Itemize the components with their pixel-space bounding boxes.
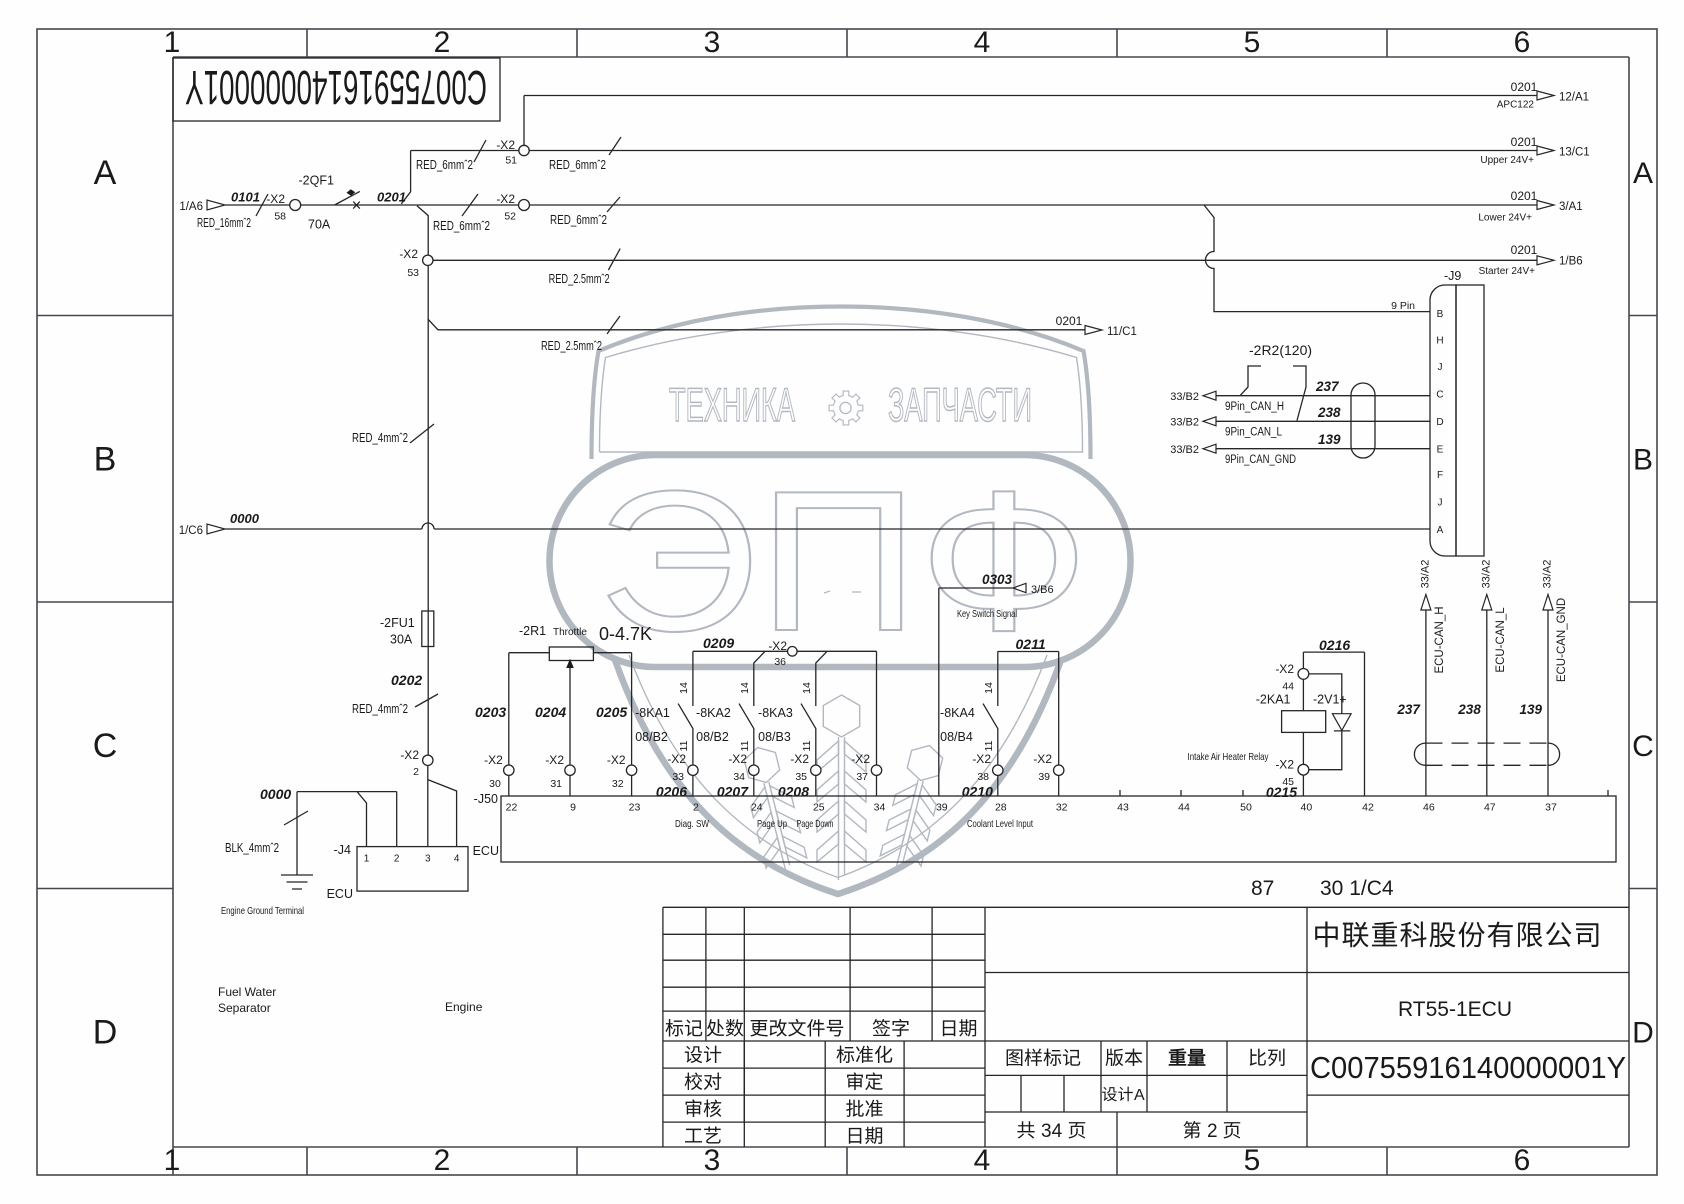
svg-text:Key Switch Signal: Key Switch Signal <box>957 608 1017 620</box>
svg-text:51: 51 <box>505 155 517 167</box>
svg-text:4: 4 <box>974 26 991 59</box>
svg-text:22: 22 <box>506 802 518 814</box>
starter rail 0201 to 1/B6 <box>427 259 1537 261</box>
svg-text:-X2: -X2 <box>1275 758 1294 772</box>
connector pin -X2:37 <box>871 765 881 775</box>
svg-text:33/A2: 33/A2 <box>1480 560 1492 589</box>
svg-text:E: E <box>1437 445 1444 456</box>
junction bend down to J9 9-pin feed <box>1204 205 1430 312</box>
svg-text:87: 87 <box>1251 877 1274 900</box>
svg-text:11/C1: 11/C1 <box>1107 326 1137 338</box>
svg-text:0205: 0205 <box>596 704 627 720</box>
connector -J9 <box>1430 285 1456 556</box>
svg-text:2: 2 <box>434 26 451 59</box>
off-page arrow 13/C1 <box>1537 146 1554 155</box>
svg-text:0101: 0101 <box>231 190 260 205</box>
svg-text:12/A1: 12/A1 <box>1559 92 1589 104</box>
svg-text:08/B2: 08/B2 <box>696 730 729 744</box>
svg-text:14: 14 <box>983 682 995 694</box>
svg-text:-X2: -X2 <box>790 752 809 766</box>
svg-text:Page Up: Page Up <box>757 818 787 830</box>
svg-text:-2R2(120): -2R2(120) <box>1249 342 1312 358</box>
svg-text:-X2: -X2 <box>399 247 418 261</box>
connector pin -X2:52 <box>519 200 530 211</box>
svg-text:-2FU1: -2FU1 <box>380 616 415 630</box>
svg-text:-X2: -X2 <box>851 752 870 766</box>
svg-text:11: 11 <box>801 740 813 751</box>
svg-text:33/A2: 33/A2 <box>1419 560 1431 589</box>
svg-text:J: J <box>1438 362 1443 373</box>
svg-text:C: C <box>1436 390 1443 401</box>
svg-text:J: J <box>1438 498 1443 509</box>
branch riser to starter rail <box>417 206 428 606</box>
svg-text:35: 35 <box>795 771 807 783</box>
svg-text:2: 2 <box>1207 1121 1218 1142</box>
svg-text:RED_2.5mmˆ2: RED_2.5mmˆ2 <box>549 272 610 286</box>
svg-text:30 1/C4: 30 1/C4 <box>1320 877 1394 900</box>
svg-text:11: 11 <box>678 740 690 751</box>
svg-text:53: 53 <box>407 267 419 279</box>
connector pin -X2:51 <box>519 145 529 155</box>
svg-text:34: 34 <box>733 771 745 783</box>
svg-text:ECU-CAN_L: ECU-CAN_L <box>1495 607 1507 673</box>
svg-text:Page Down: Page Down <box>797 818 834 830</box>
svg-text:B: B <box>1437 309 1444 320</box>
svg-text:-X2: -X2 <box>266 192 285 206</box>
node 0201 top rail to 12/A1 <box>524 95 1537 97</box>
svg-text:08/B3: 08/B3 <box>758 730 791 744</box>
connector pin -X2:45 <box>1298 764 1309 775</box>
relay contact -8KA2 <box>754 651 765 706</box>
node 0201 rail to 13/C1 <box>411 150 1537 152</box>
svg-text:40: 40 <box>1301 802 1313 814</box>
svg-text:D: D <box>93 1014 118 1052</box>
svg-text:-J50: -J50 <box>474 792 498 806</box>
svg-text:-8KA1: -8KA1 <box>635 706 670 720</box>
svg-text:9 Pin: 9 Pin <box>1391 300 1415 312</box>
svg-text:0209: 0209 <box>703 635 734 651</box>
svg-text:-J4: -J4 <box>334 843 351 857</box>
svg-text:B: B <box>1633 444 1653 477</box>
svg-text:-X2: -X2 <box>972 752 991 766</box>
svg-text:RED_4mmˆ2: RED_4mmˆ2 <box>352 431 408 445</box>
svg-text:0204: 0204 <box>535 704 566 720</box>
twisted pair symbol <box>1351 383 1375 458</box>
svg-text:237: 237 <box>1315 379 1340 394</box>
svg-text:11: 11 <box>739 740 751 751</box>
svg-text:0-4.7K: 0-4.7K <box>599 624 652 644</box>
connector pin -X2:53 <box>423 255 433 265</box>
net 0211 <box>998 652 1059 797</box>
svg-text:46: 46 <box>1423 802 1435 814</box>
svg-text:ECU: ECU <box>327 887 353 901</box>
svg-text:-X2: -X2 <box>400 748 419 762</box>
svg-text:Starter 24V+: Starter 24V+ <box>1479 266 1536 277</box>
svg-text:4: 4 <box>974 1144 991 1177</box>
svg-text:-X2: -X2 <box>728 752 747 766</box>
connector pins -X2:30,31,32 <box>504 765 514 775</box>
svg-text:52: 52 <box>504 211 516 223</box>
svg-text:37: 37 <box>856 771 868 783</box>
svg-text:ECU: ECU <box>473 844 499 858</box>
ground rail 0000 from 1/C6 to J9 pin A <box>225 523 1430 529</box>
svg-text:H: H <box>1436 336 1443 347</box>
off-page source arrow 1/A6 <box>207 200 225 210</box>
svg-text:F: F <box>1437 470 1443 481</box>
svg-text:0211: 0211 <box>1016 636 1046 652</box>
title block <box>663 907 1629 1147</box>
svg-text:3/A1: 3/A1 <box>1559 201 1583 213</box>
main feed wire 0101/0201 <box>225 204 1537 206</box>
connector pin -X2:44 <box>1298 669 1309 680</box>
svg-text:30A: 30A <box>390 633 413 647</box>
CAN_H wire to J9 pin C <box>1216 395 1430 397</box>
svg-text:ECU-CAN_GND: ECU-CAN_GND <box>1556 598 1568 682</box>
svg-text:0203: 0203 <box>475 704 506 720</box>
connector pin -X2:58 <box>290 200 301 211</box>
svg-text:237: 237 <box>1396 702 1421 717</box>
svg-text:RED_6mmˆ2: RED_6mmˆ2 <box>549 158 606 172</box>
svg-text:C00755916140000001Y: C00755916140000001Y <box>185 60 487 113</box>
svg-text:33/B2: 33/B2 <box>1170 417 1199 429</box>
svg-text:36: 36 <box>774 656 786 668</box>
svg-text:APC122: APC122 <box>1497 100 1535 111</box>
svg-text:-8KA2: -8KA2 <box>696 706 731 720</box>
svg-text:BLK_4mmˆ2: BLK_4mmˆ2 <box>225 841 279 855</box>
svg-text:0207: 0207 <box>717 784 749 800</box>
relay contact -8KA1 <box>692 651 694 706</box>
svg-text:44: 44 <box>1178 802 1190 814</box>
svg-text:C: C <box>1632 730 1654 763</box>
CAN_GND wire to J9 pin E <box>1216 448 1430 450</box>
svg-text:44: 44 <box>1282 681 1294 693</box>
svg-text:58: 58 <box>274 211 286 223</box>
svg-text:1/A6: 1/A6 <box>179 201 203 213</box>
svg-text:0000: 0000 <box>230 511 260 526</box>
svg-text:33/B2: 33/B2 <box>1170 444 1199 456</box>
svg-text:0201: 0201 <box>1511 189 1538 203</box>
svg-text:23: 23 <box>629 802 641 814</box>
svg-text:39: 39 <box>1038 771 1050 783</box>
stub pins 43,44,50 <box>1120 790 1608 796</box>
svg-text:-2R1: -2R1 <box>519 624 546 638</box>
svg-text:-X2: -X2 <box>1275 662 1294 676</box>
wiper arrow <box>569 667 571 796</box>
svg-text:13/C1: 13/C1 <box>1559 147 1590 159</box>
svg-text:37: 37 <box>1545 802 1557 814</box>
svg-text:9: 9 <box>570 802 576 814</box>
watermark logo (gray) <box>550 307 1131 895</box>
ECU CAN line ECU-CAN_L <box>1486 610 1488 796</box>
ECU connector -J50 <box>501 796 1616 862</box>
svg-text:B: B <box>94 441 117 479</box>
svg-text:0208: 0208 <box>778 784 809 800</box>
svg-text:0201: 0201 <box>1511 80 1538 94</box>
svg-text:1/B6: 1/B6 <box>1559 256 1583 268</box>
svg-text:3/B6: 3/B6 <box>1031 584 1054 596</box>
svg-text:D: D <box>1632 1017 1654 1050</box>
svg-text:9Pin_CAN_L: 9Pin_CAN_L <box>1225 427 1283 439</box>
svg-text:0201: 0201 <box>377 190 406 205</box>
svg-text:0201: 0201 <box>1511 135 1538 149</box>
svg-text:2: 2 <box>394 854 400 865</box>
svg-text:25: 25 <box>813 802 825 814</box>
svg-text:-8KA3: -8KA3 <box>758 706 793 720</box>
svg-text:34: 34 <box>874 802 886 814</box>
svg-text:-2V1+: -2V1+ <box>1313 693 1347 707</box>
svg-text:1: 1 <box>164 26 181 59</box>
svg-text:38: 38 <box>977 771 989 783</box>
svg-text:14: 14 <box>678 682 690 694</box>
svg-text:-X2: -X2 <box>1033 752 1052 766</box>
svg-text:Coolant Level Input: Coolant Level Input <box>967 818 1033 830</box>
svg-text:2: 2 <box>434 1144 451 1177</box>
svg-text:D: D <box>1436 417 1443 428</box>
svg-text:ТЕХНИКА: ТЕХНИКА <box>669 378 795 431</box>
svg-text:Separator: Separator <box>218 1001 271 1015</box>
svg-text:0201: 0201 <box>1056 314 1083 328</box>
svg-text:RED_16mmˆ2: RED_16mmˆ2 <box>197 216 251 230</box>
svg-text:RED_4mmˆ2: RED_4mmˆ2 <box>352 702 408 716</box>
svg-text:Engine: Engine <box>445 1000 483 1014</box>
svg-text:33: 33 <box>672 771 684 783</box>
svg-text:-8KA4: -8KA4 <box>940 706 975 720</box>
svg-text:5: 5 <box>1244 1144 1261 1177</box>
svg-text:24: 24 <box>751 802 763 814</box>
suppression diode -2V1 <box>1309 674 1342 770</box>
svg-text:6: 6 <box>1514 1144 1531 1177</box>
svg-text:47: 47 <box>1484 802 1496 814</box>
svg-text:14: 14 <box>739 682 751 694</box>
connector pin -X2:39 <box>1054 765 1064 775</box>
svg-text:6: 6 <box>1514 26 1531 59</box>
ECU CAN line ECU-CAN_H <box>1425 610 1427 796</box>
branch 0201 to 11/C1 <box>428 319 1085 330</box>
svg-text:ЗАПЧАСТИ: ЗАПЧАСТИ <box>888 378 1032 431</box>
svg-text:5: 5 <box>1244 26 1261 59</box>
svg-text:-X2: -X2 <box>484 753 503 767</box>
svg-text:A: A <box>1633 157 1653 190</box>
svg-text:238: 238 <box>1317 405 1341 420</box>
svg-text:3: 3 <box>425 854 431 865</box>
net 0209 <box>693 651 877 796</box>
svg-text:08/B2: 08/B2 <box>635 730 668 744</box>
svg-text:RED_6mmˆ2: RED_6mmˆ2 <box>433 219 490 233</box>
wire corner from breaker output <box>401 151 410 204</box>
svg-text:238: 238 <box>1457 702 1481 717</box>
svg-text:9Pin_CAN_H: 9Pin_CAN_H <box>1225 401 1284 413</box>
svg-text:A: A <box>1437 525 1444 536</box>
svg-text:11: 11 <box>983 740 995 751</box>
svg-text:0215: 0215 <box>1266 784 1297 800</box>
connector pin -X2:36 <box>788 647 798 657</box>
svg-text:33/A2: 33/A2 <box>1542 560 1554 589</box>
CAN_L wire to J9 pin D <box>1216 420 1430 422</box>
svg-text:-X2: -X2 <box>496 138 515 152</box>
svg-text:RED_2.5mmˆ2: RED_2.5mmˆ2 <box>541 339 602 353</box>
svg-text:0000: 0000 <box>260 786 291 802</box>
svg-text:A: A <box>1134 1087 1145 1104</box>
svg-text:Diag. SW: Diag. SW <box>675 818 709 830</box>
svg-text:0206: 0206 <box>656 784 687 800</box>
svg-text:30: 30 <box>489 778 501 790</box>
key switch signal 0303 to 3/B6 <box>939 588 1013 796</box>
svg-text:0201: 0201 <box>1511 243 1538 257</box>
svg-text:3: 3 <box>704 26 721 59</box>
fuse -2FU1 30A <box>422 611 434 647</box>
svg-text:RT55-1ECU: RT55-1ECU <box>1398 998 1512 1021</box>
relay coil -2KA1 <box>1282 711 1326 733</box>
relay contact -8KA3 <box>816 651 827 706</box>
net 0216 loop <box>1303 652 1364 796</box>
connector -J4 (ECU) <box>357 847 468 892</box>
svg-text:0303: 0303 <box>982 572 1013 587</box>
svg-text:Lower 24V+: Lower 24V+ <box>1478 213 1532 224</box>
ECU CAN line ECU-CAN_GND <box>1547 610 1549 796</box>
svg-text:39: 39 <box>936 802 948 814</box>
svg-text:1: 1 <box>364 854 370 865</box>
svg-text:33/B2: 33/B2 <box>1170 391 1199 403</box>
svg-text:3: 3 <box>704 1144 721 1177</box>
svg-text:32: 32 <box>1056 802 1068 814</box>
svg-text:4: 4 <box>454 854 460 865</box>
svg-text:-2QF1: -2QF1 <box>299 174 334 188</box>
svg-text:2: 2 <box>413 766 419 778</box>
svg-text:28: 28 <box>995 802 1007 814</box>
svg-text:-X2: -X2 <box>768 639 787 653</box>
svg-text:43: 43 <box>1117 802 1129 814</box>
svg-text:RED_6mmˆ2: RED_6mmˆ2 <box>550 213 607 227</box>
ground symbol <box>281 875 313 889</box>
svg-text:32: 32 <box>612 778 624 790</box>
svg-text:14: 14 <box>801 682 813 694</box>
svg-text:-X2: -X2 <box>607 753 626 767</box>
wires X2:2 to J4 pins 3,4 <box>428 766 457 847</box>
svg-text:139: 139 <box>1318 432 1341 447</box>
svg-text:Intake Air Heater Relay: Intake Air Heater Relay <box>1188 751 1270 763</box>
svg-text:RED_6mmˆ2: RED_6mmˆ2 <box>416 158 473 172</box>
svg-text:Throttle: Throttle <box>553 627 587 638</box>
svg-text:1: 1 <box>164 1144 181 1177</box>
off-page arrow 12/A1 <box>1537 91 1554 100</box>
svg-text:C00755916140000001Y: C00755916140000001Y <box>1310 1050 1626 1085</box>
svg-text:ECU-CAN_H: ECU-CAN_H <box>1434 606 1446 673</box>
svg-text:0202: 0202 <box>391 672 422 688</box>
svg-text:-X2: -X2 <box>667 752 686 766</box>
svg-text:Upper 24V+: Upper 24V+ <box>1480 155 1534 166</box>
svg-text:-X2: -X2 <box>496 192 515 206</box>
potentiometer -2R1 Throttle <box>549 647 593 661</box>
wire riser to top rail <box>523 96 525 146</box>
svg-text:A: A <box>94 154 117 192</box>
svg-text:42: 42 <box>1362 802 1374 814</box>
svg-text:50: 50 <box>1240 802 1252 814</box>
svg-text:-2KA1: -2KA1 <box>1256 693 1291 707</box>
svg-text:0210: 0210 <box>962 784 993 800</box>
svg-text:C: C <box>93 727 118 765</box>
svg-text:-J9: -J9 <box>1444 269 1461 283</box>
svg-text:-X2: -X2 <box>545 753 564 767</box>
svg-text:31: 31 <box>550 778 562 790</box>
svg-text:08/B4: 08/B4 <box>940 730 973 744</box>
svg-text:2: 2 <box>693 802 699 814</box>
svg-text:Fuel Water: Fuel Water <box>218 985 276 999</box>
cable shield symbol <box>1414 743 1559 765</box>
part number box (rotated) <box>173 58 500 121</box>
svg-text:34: 34 <box>1041 1121 1063 1142</box>
breaker -2QF1 70A <box>335 191 360 205</box>
relay contact -8KA4 <box>997 651 999 706</box>
svg-text:70A: 70A <box>308 218 331 232</box>
connector pin -X2:2 <box>423 755 433 765</box>
svg-text:1/C6: 1/C6 <box>179 525 203 537</box>
svg-text:0216: 0216 <box>1319 637 1350 653</box>
svg-text:9Pin_CAN_GND: 9Pin_CAN_GND <box>1225 454 1296 466</box>
svg-text:Engine Ground Terminal: Engine Ground Terminal <box>221 905 304 917</box>
off-page arrow 3/A1 <box>1537 201 1554 210</box>
svg-text:139: 139 <box>1520 702 1543 717</box>
